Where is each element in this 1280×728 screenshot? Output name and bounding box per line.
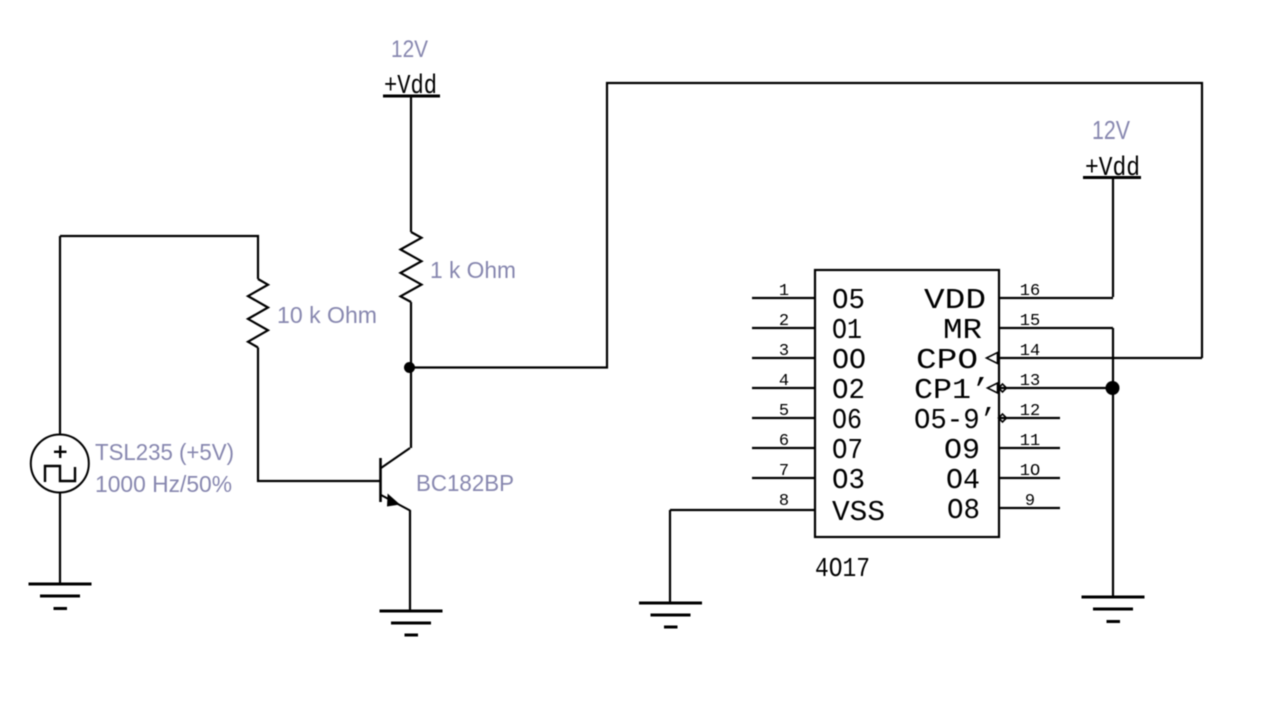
svg-text:1 k Ohm: 1 k Ohm	[430, 257, 516, 283]
svg-text:12V: 12V	[1092, 115, 1131, 145]
svg-text:1000 Hz/50%: 1000 Hz/50%	[95, 471, 232, 497]
ground (pin 8)	[639, 603, 702, 627]
pin 15 (MR)	[943, 312, 1113, 347]
wire emitter to ground	[409, 510, 411, 611]
svg-text:O5-9’: O5-9’	[914, 404, 996, 437]
svg-text:1: 1	[779, 282, 789, 301]
svg-text:O1: O1	[832, 314, 862, 347]
svg-text:O7: O7	[832, 434, 863, 467]
svg-text:CPO: CPO	[916, 344, 978, 377]
wire R1 to collector	[410, 302, 412, 448]
svg-text:O2: O2	[832, 374, 865, 407]
pin 2 (O1)	[752, 312, 862, 347]
svg-text:9: 9	[1025, 492, 1035, 511]
ground (right)	[1082, 597, 1145, 622]
svg-text:12V: 12V	[391, 36, 428, 63]
pin 11 (O9)	[944, 432, 1060, 467]
wire Vdd to R1	[410, 97, 412, 232]
svg-text:O9: O9	[944, 434, 980, 467]
svg-text:O6: O6	[832, 404, 862, 437]
svg-text:6: 6	[779, 432, 789, 451]
svg-text:10 k Ohm: 10 k Ohm	[277, 302, 377, 328]
pin 5 (O6)	[752, 402, 862, 437]
pin 3 (O0)	[752, 342, 866, 377]
svg-text:OO: OO	[832, 344, 866, 377]
svg-text:3: 3	[779, 342, 789, 361]
svg-text:1O: 1O	[1020, 462, 1040, 481]
power symbol +Vdd (right)	[1083, 154, 1141, 184]
pulse source V1	[31, 435, 89, 493]
svg-text:7: 7	[779, 462, 789, 481]
svg-text:O5: O5	[832, 284, 865, 317]
svg-text:14: 14	[1020, 342, 1040, 361]
transistor Q1 BC182BP	[381, 448, 411, 511]
wire source to ground	[59, 493, 61, 585]
svg-text:2: 2	[779, 312, 789, 331]
svg-text:O3: O3	[832, 464, 865, 497]
svg-text:12: 12	[1020, 402, 1040, 421]
svg-text:O4: O4	[946, 464, 980, 497]
pin 10 (O4)	[946, 462, 1060, 497]
svg-text:4: 4	[779, 372, 789, 391]
wire collector node to pin 14 loop	[411, 83, 1202, 368]
resistor R2	[248, 279, 268, 348]
svg-text:4O17: 4O17	[815, 555, 870, 585]
wire Vdd to pin 16	[1112, 178, 1114, 297]
svg-text:MR: MR	[943, 314, 982, 347]
resistor R1	[401, 232, 422, 302]
svg-text:5: 5	[779, 402, 789, 421]
pin 14 (CP0)	[916, 342, 1202, 377]
svg-text:BC182BP: BC182BP	[416, 470, 514, 496]
pin 13 (CP1')	[914, 372, 1113, 407]
svg-text:VDD: VDD	[924, 284, 986, 317]
svg-text:15: 15	[1020, 312, 1040, 331]
ground (source)	[29, 584, 92, 609]
IC U1 4017	[815, 270, 999, 537]
svg-text:TSL235 (+5V): TSL235 (+5V)	[95, 439, 234, 465]
svg-text:8: 8	[779, 492, 789, 511]
svg-text:O8: O8	[947, 494, 980, 527]
ground (emitter)	[380, 611, 443, 635]
wire R2 to base	[258, 348, 380, 482]
svg-text:11: 11	[1020, 432, 1040, 451]
pin 16 (VDD)	[924, 282, 1113, 317]
pin 7 (O3)	[752, 462, 865, 497]
wire source to top	[59, 236, 61, 435]
svg-text:13: 13	[1020, 372, 1040, 391]
wire pin8 to ground	[669, 510, 671, 603]
pin 9 (O8)	[947, 492, 1060, 527]
pin 1 (O5)	[752, 282, 865, 317]
svg-text:VSS: VSS	[832, 496, 885, 529]
node collector junction	[404, 362, 415, 373]
node MR/CP1 junction	[1106, 381, 1120, 395]
svg-text:16: 16	[1020, 282, 1040, 301]
pin 12 (O5-9')	[914, 402, 1060, 437]
wire MR to ground	[1112, 328, 1114, 597]
pin 4 (O2)	[752, 372, 865, 407]
pin 6 (O7)	[752, 432, 863, 467]
wire top to R2	[60, 236, 258, 279]
pin 8 (VSS)	[670, 492, 885, 529]
power symbol +Vdd (left)	[383, 72, 440, 102]
svg-text:CP1’: CP1’	[914, 374, 990, 407]
